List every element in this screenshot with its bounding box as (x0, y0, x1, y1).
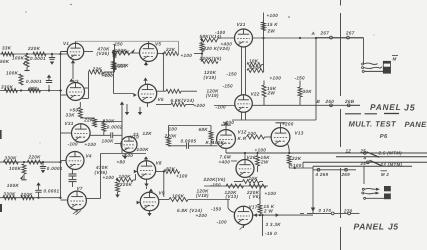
svg-text:+100: +100 (101, 72, 113, 77)
resistor 820K (247, 69, 264, 73)
wire row A input (0, 53, 67, 55)
ground cap A (50, 62, 54, 65)
wire V17 out (253, 214, 313, 216)
svg-text:2 W: 2 W (263, 208, 273, 213)
vertical 113 down (113, 53, 115, 94)
svg-text:100K: 100K (102, 138, 115, 143)
resistor 15K 2W bot (258, 204, 262, 214)
capacitor V12 top (225, 126, 227, 130)
svg-text:-100: -100 (217, 219, 228, 224)
wire V10 grid (115, 143, 122, 145)
arrow box bottom (311, 208, 315, 212)
svg-text:V12: V12 (238, 129, 247, 134)
resistor 330K row B (5, 89, 18, 93)
tube V13 (271, 128, 290, 147)
wire V1 to V3 (72, 64, 74, 79)
svg-text:100K: 100K (172, 193, 185, 198)
vertical 100 left (100, 154, 102, 199)
wire V7 grid (61, 199, 68, 201)
resistor 220K V6b (249, 184, 266, 188)
wire row D (0, 197, 61, 199)
svg-text:25: 25 (360, 149, 367, 154)
resistor 100ohm (247, 135, 265, 139)
wire V21 grid (218, 37, 235, 39)
resistor 15K 2W top (262, 22, 266, 31)
svg-text:PANEL: PANEL (405, 120, 427, 129)
pin B b (347, 104, 350, 107)
svg-text:0.0001: 0.0001 (26, 79, 42, 84)
svg-text:0 170: 0 170 (319, 208, 332, 213)
capacitor V31 (90, 134, 110, 136)
cathode arrow V1 (72, 59, 74, 64)
wire 22K to rail (104, 71, 115, 73)
svg-text:-15 0: -15 0 (265, 231, 277, 236)
wire +100 V8 (101, 153, 147, 155)
arrow V6 grid (133, 93, 136, 97)
test box outline (312, 166, 314, 213)
vertical V8-V9 (163, 172, 165, 198)
wire +200 line (232, 119, 316, 121)
svg-text:+100: +100 (265, 191, 277, 196)
ground V8 (146, 180, 148, 184)
svg-text:269: 269 (341, 172, 351, 177)
svg-text:+80: +80 (117, 159, 126, 164)
svg-text:0.0001: 0.0001 (44, 189, 60, 194)
svg-text:267: 267 (345, 30, 355, 35)
ground row C (20, 175, 24, 180)
svg-text:24: 24 (360, 161, 367, 166)
tube V7 (68, 191, 87, 210)
wire row B (0, 90, 62, 92)
svg-text:V31: V31 (65, 121, 74, 126)
resistor 82K (164, 170, 180, 174)
svg-text:+100: +100 (103, 175, 115, 180)
svg-text:+100: +100 (176, 174, 188, 179)
ground V7 (76, 210, 78, 213)
svg-text:+100: +100 (255, 148, 267, 153)
svg-text:+100: +100 (270, 75, 282, 80)
panel boundary dashed (340, 0, 342, 6)
tube V6 (138, 84, 156, 102)
tube V21 (235, 29, 253, 47)
svg-text:0.0002: 0.0002 (107, 124, 123, 129)
svg-text:0.0001: 0.0001 (30, 56, 46, 61)
svg-text:100K: 100K (119, 174, 132, 179)
resistor 330K V31 (102, 123, 106, 132)
svg-text:( V6): ( V6) (249, 194, 261, 199)
wire V17 grid (227, 200, 229, 209)
resistor 33K (2, 52, 15, 56)
wire V5 plate out (158, 53, 164, 55)
cathode V5 (145, 62, 147, 67)
svg-text:4: 4 (363, 156, 367, 161)
resistor 15K V26 (256, 156, 260, 167)
svg-text:220K: 220K (27, 46, 41, 51)
wire caps to V7 (72, 182, 74, 187)
svg-text:23 (MTM): 23 (MTM) (380, 162, 403, 167)
svg-text:267: 267 (320, 30, 330, 35)
wire 10K V26 (234, 181, 243, 183)
connector M lines (362, 63, 364, 65)
svg-text:82K: 82K (166, 167, 176, 172)
switch blade 1 (367, 152, 380, 158)
svg-text:V22: V22 (251, 92, 260, 97)
svg-text:0.0001: 0.0001 (47, 166, 63, 171)
capacitor 0.0001 C (42, 162, 44, 166)
resistor 220K mid (167, 137, 171, 146)
wire V5 grid (130, 52, 140, 54)
svg-text:58K(V14): 58K(V14) (200, 34, 222, 39)
resistor 15K 2W mid (262, 85, 266, 97)
tube V9 (140, 192, 159, 211)
connector M2 body (384, 186, 391, 199)
potentiometer 100K (25, 55, 29, 67)
resistor 220K row D (21, 196, 34, 200)
svg-text:V21: V21 (237, 22, 246, 27)
junction row A (26, 53, 28, 55)
bus L3 (303, 161, 427, 163)
resistor 100K V8 (116, 178, 133, 182)
junction rail-V5 (112, 52, 114, 54)
capacitor stack b (72, 176, 74, 179)
wire V6 plate out (157, 90, 166, 92)
svg-text:33K: 33K (66, 113, 76, 118)
resistor 220K row A (33, 52, 46, 56)
wire V4 grid (61, 160, 67, 162)
svg-text:+100: +100 (290, 163, 302, 168)
wire V9 out (188, 199, 230, 201)
svg-text:V9: V9 (159, 190, 165, 195)
svg-text:100: 100 (248, 131, 257, 136)
svg-text:M: M (393, 56, 397, 61)
svg-text:V8: V8 (156, 160, 162, 165)
wire V26 left (231, 160, 237, 162)
twin vertical V22 down (241, 112, 243, 120)
wire V12 bottom (225, 148, 227, 153)
svg-text:-150: -150 (227, 72, 238, 77)
resistor 33K V31 (78, 108, 82, 119)
svg-text:100K: 100K (6, 71, 19, 76)
svg-text:22K: 22K (92, 66, 103, 71)
svg-text:15 K: 15 K (267, 22, 278, 27)
resistor 58K (201, 38, 218, 42)
wire V31 left (61, 132, 72, 134)
svg-text:68K: 68K (199, 127, 209, 132)
wire V7 link (87, 198, 101, 200)
wire V26 top (244, 153, 246, 160)
svg-text:A: A (311, 31, 316, 36)
svg-text:V26: V26 (247, 155, 256, 160)
resistor V6 plate (166, 89, 181, 93)
svg-text:V7: V7 (77, 186, 83, 191)
wire V1 plate top rail (75, 41, 77, 43)
svg-text:V13: V13 (295, 130, 304, 135)
resistor 330K row D (3, 196, 16, 200)
resistor 100K V9 (169, 198, 188, 202)
arrow V9 grid (137, 201, 140, 205)
arrow V17 a (254, 213, 257, 217)
resistor 100K vert C (22, 164, 26, 174)
svg-text:+100: +100 (181, 53, 193, 58)
wire 100ohm right (265, 136, 272, 138)
svg-text:100K: 100K (7, 183, 20, 188)
wire row C (0, 161, 61, 163)
ground V6 b (139, 107, 141, 112)
svg-text:10K: 10K (249, 176, 259, 181)
wire V9 plate (159, 199, 169, 201)
wire +100 node (194, 53, 202, 55)
arrow V6 top (143, 78, 147, 81)
rail vertical 114 (114, 44, 116, 72)
svg-text:+200: +200 (196, 213, 208, 218)
vertical 316 (315, 38, 317, 120)
svg-text:(V19): (V19) (204, 75, 217, 80)
svg-text:100K: 100K (9, 166, 22, 171)
wiper arrow V5 (131, 49, 135, 53)
arrow V8 top (144, 156, 148, 159)
svg-text:100K: 100K (115, 48, 128, 53)
wire 270 line (300, 212, 304, 214)
svg-text:-150: -150 (295, 75, 306, 80)
capacitor V13 top (280, 124, 282, 128)
wire 3.3K (262, 215, 264, 236)
pin B a (330, 104, 333, 107)
arrow V8 grid (134, 170, 137, 174)
tube V3 (67, 83, 85, 101)
edge mark a (0, 130, 2, 139)
switch blade 2 (370, 160, 383, 166)
resistor 100K vertical (19, 74, 23, 85)
svg-text:100K: 100K (12, 55, 25, 60)
vertical 122 (121, 103, 123, 154)
svg-text:+200: +200 (194, 103, 206, 108)
svg-text:(V13): (V13) (226, 194, 239, 199)
svg-text:50K: 50K (0, 59, 10, 64)
capacitor 0.0005 (186, 143, 188, 149)
svg-text:220K: 220K (116, 63, 130, 68)
svg-text:V1: V1 (63, 41, 69, 46)
tube V22 (235, 95, 253, 113)
ground V10 (124, 154, 126, 156)
svg-text:12K: 12K (143, 131, 153, 136)
arrow V17 b (276, 213, 279, 217)
svg-text:V6: V6 (158, 97, 164, 102)
svg-text:220 K(V24): 220 K(V24) (203, 46, 231, 51)
edge mark b (0, 204, 2, 212)
corner L3 (302, 162, 304, 168)
bus L4 (313, 165, 412, 167)
plate rail A (253, 37, 364, 39)
resistor 220K V8 (116, 182, 120, 192)
svg-text:V5: V5 (155, 42, 161, 47)
resistor 100K V5 (112, 51, 130, 55)
plate rail B (252, 104, 360, 106)
wire V1 plate stub (84, 51, 93, 53)
svg-text:220K(V6): 220K(V6) (203, 177, 226, 182)
svg-text:V17: V17 (249, 204, 258, 209)
tube V8 (137, 161, 155, 179)
svg-text:220K: 220K (119, 182, 133, 187)
twin vertical V21-V22 (241, 47, 243, 95)
ground row D (36, 182, 40, 185)
ground V9 (149, 211, 151, 213)
svg-text:26B: 26B (344, 99, 355, 104)
svg-text:-150: -150 (223, 84, 234, 89)
tube V17 (234, 206, 252, 224)
svg-text:B: B (317, 99, 321, 104)
svg-text:K.R: K.R (238, 136, 247, 141)
svg-text:(V26): (V26) (97, 51, 110, 56)
svg-text:+200: +200 (282, 122, 294, 127)
resistor 100K rail (113, 50, 117, 58)
resistor 30K (298, 87, 302, 97)
resistor 22K V3 (89, 70, 105, 74)
specks (70, 4, 71, 5)
resistor 220K V24 (200, 43, 204, 52)
tube V4 (66, 152, 84, 170)
svg-text:PANEL: PANEL (370, 102, 402, 112)
vertical 263 down (263, 38, 265, 71)
connector M body (383, 61, 390, 73)
wire coupling (169, 145, 187, 147)
wire V8 grid in (133, 179, 136, 181)
resistor 880 row B (28, 89, 41, 93)
resistor 220K v (112, 62, 116, 71)
svg-text:820K: 820K (250, 65, 263, 70)
resistor 22K V5 (164, 52, 179, 56)
svg-text:M 2: M 2 (381, 172, 389, 177)
underline dashes (345, 113, 361, 115)
svg-text:220K: 220K (164, 134, 178, 139)
svg-text:33K: 33K (2, 46, 12, 51)
svg-text:-100: -100 (68, 142, 79, 147)
wire +100 feed (263, 13, 265, 39)
connector M2 lines (362, 188, 364, 190)
tube V12 (217, 130, 236, 149)
wire V3 grid (61, 94, 67, 96)
svg-text:-150: -150 (113, 41, 124, 46)
svg-text:260: 260 (325, 99, 335, 104)
svg-text:+100: +100 (267, 13, 279, 18)
tube V31 (72, 124, 91, 143)
bus L2 (336, 156, 427, 158)
svg-text:+100: +100 (122, 153, 134, 158)
wire -150 corner (178, 41, 180, 53)
capacitor 0.0001 D (38, 186, 40, 191)
wire row 186 (204, 185, 268, 187)
box pin line (313, 169, 356, 171)
wire V5 plate (148, 41, 150, 43)
tube V26 (236, 160, 254, 178)
tube V10 (121, 137, 137, 153)
ground 220K (117, 192, 119, 195)
resistor 68K (209, 131, 213, 140)
wire B tail (350, 104, 360, 106)
wire V6 plate cont (181, 90, 197, 92)
svg-text:J5: J5 (388, 222, 399, 232)
resistor 22K V31 (93, 118, 97, 127)
svg-text:PANEL: PANEL (354, 221, 385, 231)
svg-text:100K: 100K (137, 147, 150, 152)
wire 22K down (288, 165, 290, 169)
resistor 10K (247, 63, 262, 67)
junction row B (20, 89, 22, 91)
grid bus vertical (60, 54, 62, 199)
svg-text:(V19): (V19) (206, 93, 219, 98)
svg-text:+100: +100 (85, 142, 97, 147)
pin 267 b (347, 36, 350, 39)
arrow V9 top (149, 189, 153, 192)
wire V8 plate (156, 171, 164, 173)
wire V1 grid (61, 51, 68, 53)
arrow V3 top (69, 79, 73, 82)
tube V1 (67, 43, 83, 59)
svg-text:22K: 22K (165, 47, 176, 52)
pin 269 a (317, 168, 320, 171)
resistor 120K V13b (226, 184, 244, 188)
svg-text:100K: 100K (212, 140, 225, 145)
resistor 220K V6m (201, 60, 218, 64)
resistor 10K V26 (243, 180, 260, 184)
svg-text:P6: P6 (380, 133, 388, 140)
pin 269 b (345, 168, 348, 171)
wire 6.8K right (186, 104, 195, 106)
svg-text:10K: 10K (249, 59, 259, 64)
svg-text:(V18): (V18) (196, 193, 209, 198)
svg-text:6.8K(V14): 6.8K(V14) (171, 98, 195, 103)
junction rail A dots (262, 37, 264, 39)
svg-text:2W: 2W (267, 28, 276, 33)
wire 267 tail (349, 37, 363, 39)
svg-text:2W: 2W (260, 160, 269, 165)
vertical connector1 (363, 38, 365, 64)
tube V5 (140, 44, 158, 62)
svg-text:220K(V6): 220K(V6) (199, 56, 222, 61)
pin 270 (348, 212, 351, 215)
wire 6.8K left (156, 104, 171, 106)
svg-text:J5: J5 (404, 102, 416, 112)
svg-text:V4: V4 (86, 154, 92, 159)
svg-text:33: 33 (133, 132, 139, 137)
svg-text:4 269: 4 269 (315, 172, 329, 177)
resistor 220 rail (113, 62, 117, 69)
svg-text:12: 12 (346, 149, 352, 154)
svg-text:30K: 30K (303, 89, 313, 94)
pin 267 a (330, 36, 333, 39)
capacitor stack a (72, 170, 74, 174)
svg-text:22K: 22K (291, 156, 302, 161)
wire 330K bottom (103, 131, 105, 135)
svg-text:100: 100 (169, 126, 178, 131)
ground V6 a (126, 104, 128, 112)
capacitor row B (48, 85, 50, 91)
pin 170 (331, 212, 334, 215)
wire 100 mid (169, 125, 212, 127)
resistor 220K row C (27, 160, 42, 164)
ground V17 (243, 225, 245, 228)
resistor 22K L1 (287, 155, 291, 165)
bus L1 (226, 152, 427, 154)
svg-text:+400: +400 (219, 160, 231, 165)
svg-text:3 3.3K: 3 3.3K (266, 222, 282, 227)
resistor 6.8K (171, 103, 186, 107)
wire V22 grid (214, 105, 235, 107)
svg-text:2W: 2W (267, 91, 276, 96)
svg-text:220K: 220K (28, 155, 42, 160)
svg-text:2.5 (MTM): 2.5 (MTM) (378, 150, 403, 155)
wire V3 plate right (84, 87, 88, 89)
svg-text:-150: -150 (211, 207, 222, 212)
